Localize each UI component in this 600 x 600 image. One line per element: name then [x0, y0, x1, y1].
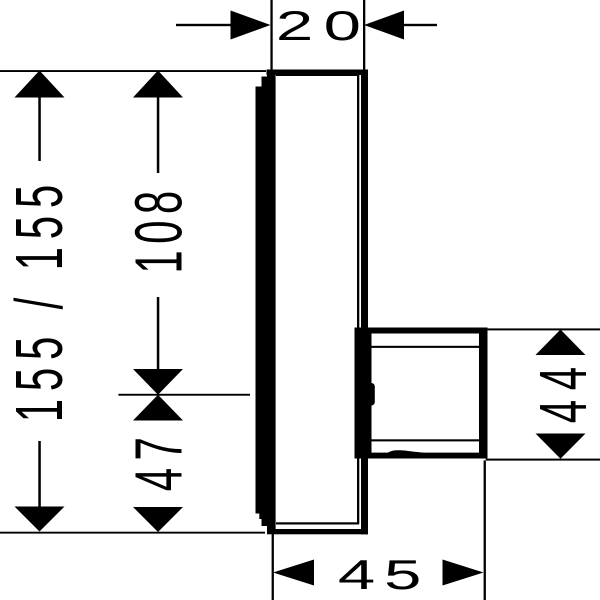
dim 45 right arrow [443, 560, 484, 586]
plate top edge [267, 70, 369, 76]
plate left strip (wall flange, stepped profile) [256, 72, 276, 532]
dim 155/155 bottom arrow [15, 441, 65, 532]
valve body top edge [367, 328, 488, 334]
dim 20 right arrow [364, 11, 437, 40]
extension line 45-right vertical [484, 460, 486, 600]
plate inner thin line right [357, 74, 359, 524]
extension line 45-left vertical [272, 534, 274, 600]
valve left junction solid band [355, 328, 372, 459]
extension line bottom-left horizontal [0, 532, 265, 534]
dim 108/47 bowtie arrows [133, 297, 183, 421]
plate inner thin line top [276, 74, 359, 76]
dim 45 left arrow [273, 560, 314, 586]
extension line 44-top horizontal [488, 328, 600, 330]
dim 108 label [120, 184, 196, 273]
extension line top-left horizontal [0, 70, 266, 72]
svg-text:155 / 155: 155 / 155 [1, 177, 77, 422]
plate right edge [361, 70, 368, 535]
plate bottom edge [267, 529, 368, 534]
svg-text:20: 20 [276, 2, 372, 49]
svg-text:47: 47 [120, 430, 196, 492]
svg-text:45: 45 [338, 551, 430, 598]
dim 155/155 top arrow [15, 71, 65, 162]
extension line 44-bottom horizontal [486, 459, 600, 461]
dim 108 top arrow [133, 71, 183, 174]
dim 44 label [525, 357, 600, 423]
dim 20 label [276, 2, 372, 49]
valve inner thin line lower [369, 439, 479, 441]
valve hidden spigot bump [366, 383, 375, 406]
dim 44 bottom arrow [536, 434, 586, 459]
dim 44 top arrow [536, 330, 586, 356]
dim 20 left arrow [176, 11, 271, 40]
dim 45 label [338, 551, 430, 598]
center line at valve axis [118, 394, 250, 396]
extension line 20-right vertical [363, 0, 365, 70]
svg-text:44: 44 [525, 357, 600, 423]
valve body right edge [479, 328, 488, 459]
valve body bottom edge (with break-line bump) [367, 450, 487, 458]
svg-text:108: 108 [120, 184, 196, 273]
plate inner thin line bottom [276, 522, 359, 524]
extension line 20-left vertical [270, 0, 272, 70]
dim 47 label [120, 430, 196, 492]
dim 155/155 label [1, 177, 77, 422]
valve inner thin line upper [369, 346, 479, 348]
dim 47 bottom arrow [133, 507, 183, 532]
